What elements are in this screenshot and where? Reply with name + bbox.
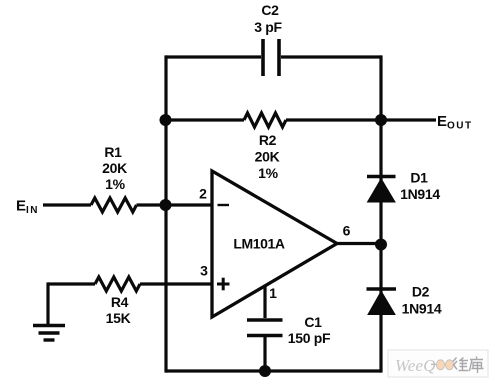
svg-text:C1: C1 [304, 314, 322, 330]
wire C1 stem upper [263, 285, 266, 318]
capacitor C1 [247, 320, 283, 336]
svg-text:20K: 20K [102, 160, 127, 176]
svg-text:6: 6 [343, 223, 351, 239]
op-amp minus sign [218, 204, 230, 206]
op-amp plus sign [217, 278, 230, 291]
wire bottom rail [166, 369, 381, 372]
watermark box [388, 350, 488, 377]
wire R1 to inverting input pin 2 [137, 203, 213, 206]
watermark 维库 glyphs [453, 357, 484, 374]
wire top rail right of C2 [281, 55, 381, 58]
node junction R1 / pin2 [160, 199, 172, 211]
svg-text:D2: D2 [412, 284, 430, 300]
wire output stub to E_OUT [381, 118, 436, 121]
node junction output pin 6 [375, 239, 387, 251]
wire ground to R4 [48, 282, 95, 285]
svg-text:2: 2 [199, 186, 207, 202]
svg-text:3: 3 [200, 263, 208, 279]
resistor R2 [244, 113, 286, 127]
diode D1 [367, 177, 396, 203]
wire E_IN to R1 [43, 203, 91, 206]
svg-text:R4: R4 [111, 294, 129, 310]
svg-text:R1: R1 [104, 144, 122, 160]
wire right vertical bus [379, 55, 382, 372]
diode D2 [367, 289, 397, 315]
svg-text:1: 1 [269, 285, 277, 301]
node junction right bus / R2 / E_OUT [375, 114, 387, 126]
capacitor C2 [263, 39, 279, 76]
svg-text:D1: D1 [410, 170, 428, 186]
svg-text:1N914: 1N914 [402, 301, 442, 317]
node junction C1 / bottom rail [259, 365, 271, 377]
svg-text:C2: C2 [261, 2, 279, 18]
wire R4 to non-inverting input pin 3 [140, 282, 212, 285]
wire R2 row left segment [166, 118, 244, 121]
wire R2 row right segment [286, 118, 381, 121]
ground [33, 326, 65, 341]
node junction left bus / R2 [160, 114, 172, 126]
resistor R4 [95, 277, 140, 291]
svg-text:20K: 20K [255, 149, 280, 165]
svg-text:150 pF: 150 pF [288, 330, 331, 346]
op-amp U1 LM101A [212, 171, 337, 317]
svg-text:3 pF: 3 pF [254, 19, 282, 35]
wire C1 stem lower [263, 337, 266, 371]
resistor R1 [91, 198, 137, 212]
svg-text:R2: R2 [259, 132, 277, 148]
svg-text:15K: 15K [106, 310, 131, 326]
watermark oo ovals [431, 363, 454, 365]
wire op-amp output to right bus [337, 242, 381, 245]
svg-text:LM101A: LM101A [233, 236, 285, 252]
svg-text:WeeQ: WeeQ [395, 356, 436, 375]
svg-text:1%: 1% [258, 165, 278, 181]
svg-text:1%: 1% [105, 176, 125, 192]
svg-text:EOUT: EOUT [437, 113, 473, 132]
wire left vertical bus [164, 55, 167, 372]
svg-text:1N914: 1N914 [400, 186, 440, 202]
svg-text:EIN: EIN [16, 198, 39, 217]
wire top rail left of C2 [166, 55, 261, 58]
wire ground drop [46, 282, 49, 325]
